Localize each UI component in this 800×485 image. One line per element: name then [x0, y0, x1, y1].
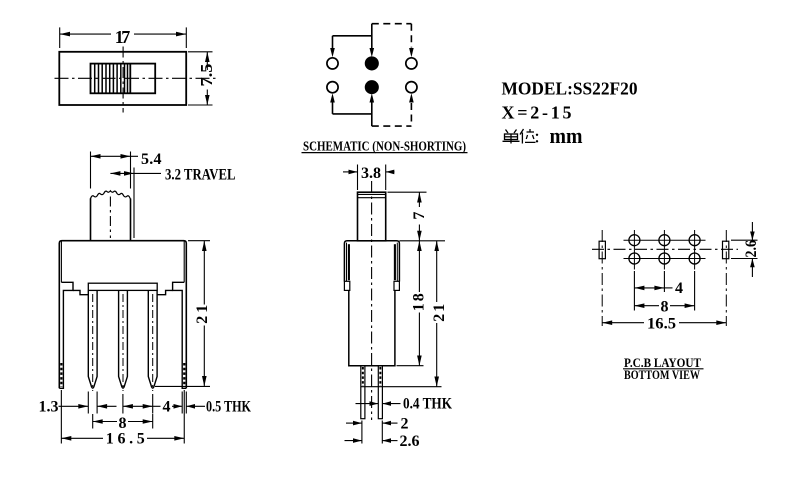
pcb slot left [599, 241, 605, 259]
svg-text:7.5: 7.5 [197, 64, 216, 87]
pcb slot right [723, 241, 729, 259]
pcb row line top [624, 239, 706, 241]
svg-text:4: 4 [675, 280, 683, 297]
terminal pin 1 open [327, 58, 338, 69]
top view horizontal centerline [55, 77, 217, 79]
dimension 1.3 [39, 392, 117, 416]
dimension 16.5 (front) [61, 390, 184, 447]
mounting leg hatch left [60, 363, 62, 387]
pcb hole B1 [629, 253, 640, 264]
svg-text:2: 2 [401, 415, 409, 432]
svg-text:0.5 THK: 0.5 THK [206, 399, 251, 416]
front knob centerline [109, 197, 111, 239]
travel phantom line [133, 168, 135, 239]
dimension 21 (side) [361, 241, 448, 387]
dimension 3.8 [343, 165, 395, 191]
mounting leg hatch right [183, 363, 185, 387]
terminal pin 2 common filled [366, 57, 378, 69]
pcb slot left centerline [601, 230, 603, 326]
svg-text:17: 17 [115, 27, 131, 47]
pcb layout title [623, 356, 704, 382]
schematic title [302, 139, 468, 155]
svg-text:0.4 THK: 0.4 THK [403, 396, 452, 413]
pcb row line bottom [624, 258, 706, 260]
top view knob knurl hatch [95, 64, 128, 94]
front body outline [59, 241, 186, 389]
terminal pin 4 open [327, 82, 338, 93]
top view vertical centerline [122, 47, 124, 113]
dimension 3.2 TRAVEL [110, 167, 235, 184]
dimension 4 (pcb) [634, 271, 683, 297]
dimension 5.4 [91, 151, 162, 189]
side leg plate right [394, 243, 399, 291]
dimension 7 [388, 192, 446, 241]
pcb column line 3 [694, 230, 696, 270]
front knob zigzag top [91, 191, 131, 241]
svg-text:8: 8 [661, 298, 669, 315]
svg-text:5.4: 5.4 [141, 151, 162, 168]
pcb hole A2 [659, 235, 670, 246]
side knob [358, 192, 386, 241]
model text [502, 79, 638, 99]
pcb hole B2 [659, 253, 670, 264]
svg-text:7: 7 [411, 212, 428, 220]
dimension 8 (front) [93, 414, 153, 432]
svg-text:16.5: 16.5 [647, 315, 676, 332]
dimension 8 (pcb) [634, 271, 694, 315]
side pin left [361, 366, 365, 419]
dimension 17 [60, 27, 187, 48]
side body frame [344, 241, 399, 366]
svg-text:BOTTOM VIEW: BOTTOM VIEW [624, 368, 700, 382]
terminal pin 3 open [406, 58, 417, 69]
dimension 4 (front) [123, 394, 171, 416]
pcb slot right centerline [725, 230, 727, 326]
pcb column line 1 [633, 230, 635, 270]
svg-text:2.6: 2.6 [400, 433, 420, 450]
terminal pin 5 common filled [366, 81, 378, 93]
unit label (dan wei : mm) [503, 123, 583, 148]
dimension 2.6 (pcb) [731, 222, 760, 277]
wire solid top [330, 24, 374, 58]
svg-text:mm: mm [550, 123, 583, 148]
dimension 2.6 (side) [345, 433, 420, 450]
pcb hole B3 [689, 253, 700, 264]
side pin right [378, 366, 382, 419]
dimension 18 [397, 241, 428, 366]
terminal pin 6 open [406, 82, 417, 93]
dimension 7.5 [188, 52, 216, 105]
dimension 0.4 THK [356, 396, 453, 413]
pcb column line 2 [663, 230, 665, 270]
top view body outline [59, 52, 186, 105]
wire solid bottom [330, 93, 374, 126]
pcb centerline [592, 248, 738, 250]
top view knob outline [91, 64, 156, 94]
wire dashed top [372, 24, 414, 58]
side leg plate left [344, 243, 349, 291]
svg-text:MODEL:SS22F20: MODEL:SS22F20 [502, 79, 638, 99]
svg-text:1.3: 1.3 [39, 399, 59, 416]
pcb hole A1 [629, 235, 640, 246]
svg-text:16.5: 16.5 [106, 430, 145, 447]
svg-text:2.6: 2.6 [743, 240, 760, 257]
front pin 2 [119, 291, 128, 391]
front pin 3 [148, 291, 157, 391]
pcb hole A3 [689, 235, 700, 246]
front pin 1 [88, 291, 97, 391]
svg-text:3.2 TRAVEL: 3.2 TRAVEL [165, 167, 236, 184]
dimension 0.5 THK [172, 392, 251, 416]
wire dashed bottom [372, 93, 414, 126]
svg-text:4: 4 [163, 399, 171, 416]
dimension 2 [346, 415, 409, 443]
svg-text:3.8: 3.8 [361, 165, 381, 182]
front body bottom profile [59, 282, 186, 388]
dimension 16.5 (pcb) [602, 315, 726, 332]
dimension 21 (front) [155, 241, 211, 387]
X range text [502, 103, 572, 123]
side centerline [371, 181, 373, 420]
